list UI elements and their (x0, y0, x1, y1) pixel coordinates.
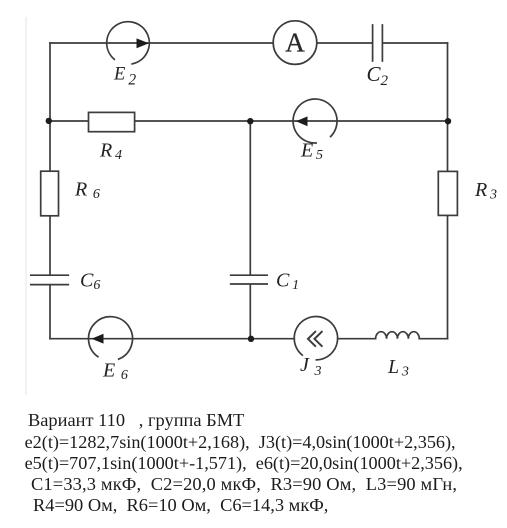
svg-text:R 6: R 6 (74, 179, 100, 203)
svg-text:A: A (285, 28, 305, 58)
svg-text:C6: C6 (80, 270, 100, 294)
svg-text:E 2: E 2 (113, 65, 136, 89)
svg-text:C2: C2 (367, 62, 389, 89)
svg-text:E 6: E 6 (102, 360, 128, 384)
svg-text:J 3: J 3 (300, 354, 322, 379)
svg-text:E 5: E 5 (300, 140, 323, 164)
svg-text:R 4: R 4 (99, 140, 122, 164)
svg-text:C 1: C 1 (276, 270, 299, 294)
svg-text:R 3: R 3 (474, 179, 497, 203)
svg-text:L 3: L 3 (387, 356, 409, 380)
